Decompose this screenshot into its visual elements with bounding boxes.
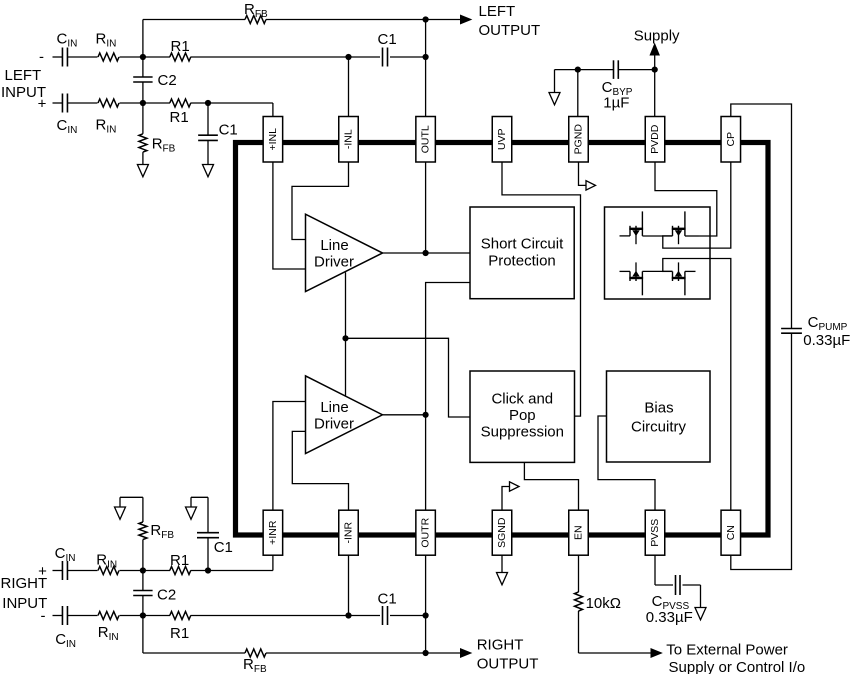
svg-text:-INL: -INL — [343, 129, 355, 149]
svg-text:R1: R1 — [170, 625, 189, 642]
svg-text:EN: EN — [573, 525, 585, 540]
svg-text:SGND: SGND — [496, 517, 508, 548]
svg-text:Click and: Click and — [491, 391, 553, 408]
svg-text:Supply or Control I/o: Supply or Control I/o — [669, 659, 806, 674]
svg-text:Suppression: Suppression — [481, 424, 564, 441]
svg-text:+: + — [38, 563, 47, 580]
svg-text:Driver: Driver — [314, 416, 354, 433]
svg-text:OUTPUT: OUTPUT — [477, 656, 539, 673]
svg-text:+: + — [38, 96, 47, 113]
svg-text:+INR: +INR — [267, 520, 279, 545]
svg-text:0.33µF: 0.33µF — [803, 332, 850, 349]
svg-text:-: - — [39, 49, 44, 66]
svg-text:C2: C2 — [157, 586, 176, 603]
svg-text:To External Power: To External Power — [666, 642, 788, 659]
svg-text:1µF: 1µF — [603, 95, 629, 112]
svg-text:UVP: UVP — [496, 128, 508, 150]
svg-text:LEFT: LEFT — [479, 3, 516, 20]
svg-text:OUTL: OUTL — [420, 125, 432, 153]
svg-text:Line: Line — [320, 399, 348, 416]
svg-text:0.33µF: 0.33µF — [646, 609, 693, 626]
svg-text:Line: Line — [320, 237, 348, 254]
svg-text:CP: CP — [725, 132, 737, 147]
svg-text:C1: C1 — [214, 539, 233, 556]
svg-text:Driver: Driver — [314, 253, 354, 270]
svg-text:RIGHT: RIGHT — [477, 637, 524, 654]
svg-text:CN: CN — [725, 525, 737, 540]
svg-text:Bias: Bias — [644, 400, 673, 417]
svg-text:PVDD: PVDD — [649, 124, 661, 154]
svg-text:-INR: -INR — [343, 522, 355, 544]
svg-text:Protection: Protection — [488, 253, 556, 270]
svg-text:C2: C2 — [158, 72, 177, 89]
svg-text:C1: C1 — [378, 31, 397, 48]
svg-text:PGND: PGND — [573, 124, 585, 155]
svg-text:PVSS: PVSS — [649, 519, 661, 547]
svg-text:OUTR: OUTR — [420, 517, 432, 547]
svg-text:C1: C1 — [378, 591, 397, 608]
svg-text:Supply: Supply — [634, 28, 680, 45]
svg-text:R1: R1 — [170, 552, 189, 569]
svg-text:R1: R1 — [171, 38, 190, 55]
svg-text:-: - — [41, 608, 46, 625]
svg-text:C1: C1 — [219, 122, 238, 139]
svg-text:LEFT: LEFT — [5, 67, 42, 84]
svg-text:Short Circuit: Short Circuit — [481, 236, 564, 253]
svg-text:+INL: +INL — [267, 128, 279, 151]
svg-text:OUTPUT: OUTPUT — [479, 22, 541, 39]
svg-text:R1: R1 — [170, 109, 189, 126]
svg-text:Circuitry: Circuitry — [631, 419, 686, 436]
svg-text:10kΩ: 10kΩ — [586, 595, 621, 612]
svg-text:Pop: Pop — [509, 407, 536, 424]
